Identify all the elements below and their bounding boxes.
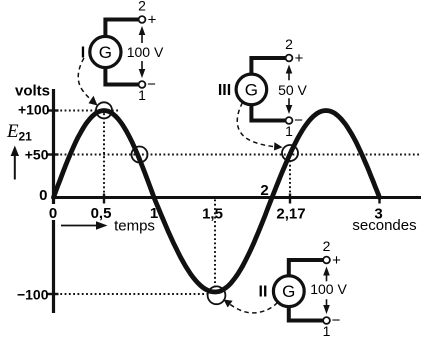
svg-text:1,5: 1,5 — [202, 206, 223, 223]
svg-text:G: G — [245, 80, 258, 99]
svg-text:1: 1 — [323, 323, 331, 339]
svg-text:100 V: 100 V — [310, 281, 347, 297]
svg-text:II: II — [259, 284, 268, 301]
svg-text:2: 2 — [323, 238, 331, 254]
svg-text:+: + — [332, 252, 341, 269]
svg-text:volts: volts — [15, 83, 50, 100]
svg-text:III: III — [218, 82, 231, 99]
svg-text:2: 2 — [260, 182, 268, 199]
svg-text:−100: −100 — [17, 287, 49, 303]
svg-text:E: E — [6, 121, 19, 142]
svg-text:2: 2 — [285, 36, 293, 52]
svg-text:2,17: 2,17 — [276, 206, 305, 223]
svg-text:1: 1 — [138, 87, 146, 103]
svg-text:+: + — [295, 50, 304, 67]
svg-text:0: 0 — [39, 187, 47, 204]
svg-text:−: − — [147, 76, 156, 93]
svg-text:−: − — [332, 312, 341, 329]
svg-text:21: 21 — [19, 130, 33, 144]
svg-text:G: G — [282, 282, 295, 301]
svg-text:secondes: secondes — [352, 217, 416, 234]
svg-text:0: 0 — [49, 205, 57, 222]
svg-text:G: G — [99, 43, 112, 62]
svg-text:+50: +50 — [25, 147, 49, 163]
svg-text:50 V: 50 V — [278, 82, 307, 98]
svg-text:0,5: 0,5 — [91, 205, 112, 222]
svg-text:+: + — [148, 12, 157, 29]
svg-text:100 V: 100 V — [127, 44, 164, 60]
svg-text:+100: +100 — [18, 102, 50, 118]
svg-text:temps: temps — [114, 218, 155, 235]
svg-text:2: 2 — [138, 0, 146, 14]
svg-text:1: 1 — [285, 123, 293, 139]
svg-text:−: − — [294, 112, 303, 129]
